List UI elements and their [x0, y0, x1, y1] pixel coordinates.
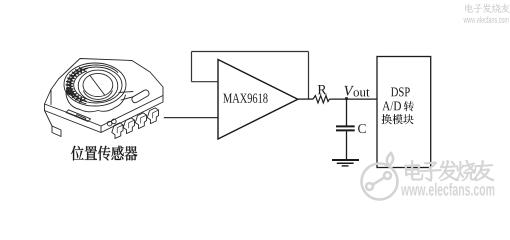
sensor eyelet holes — [107, 121, 112, 126]
capacitor label C — [358, 124, 366, 133]
resistor label R — [318, 85, 327, 94]
sensor rotor disc lower lip — [84, 91, 113, 100]
sensor rotor opening — [78, 70, 118, 101]
DSP A/D module box — [377, 57, 431, 168]
feedback wire left vertical — [191, 52, 193, 82]
wire resistor to node — [330, 98, 347, 100]
sensor rotor skirt scallop — [66, 94, 126, 112]
wire node to DSP box — [347, 98, 378, 100]
DSP box text line 2: 转 — [404, 101, 414, 111]
sensor pin 3 — [135, 113, 146, 129]
capacitor C bottom plate — [336, 129, 355, 131]
watermark top right url — [464, 16, 509, 23]
sensor label 位置传感器 — [71, 146, 137, 161]
sensor contact wedge — [66, 88, 75, 97]
feedback wire top — [192, 51, 309, 53]
ground symbol — [332, 160, 359, 166]
sensor base plate outline — [45, 59, 164, 127]
wire op-amp output to resistor — [298, 98, 313, 100]
position sensor body — [45, 59, 164, 139]
sensor hub outer rim — [64, 63, 126, 106]
resistor R zigzag — [313, 96, 330, 103]
node Vout junction dot — [345, 97, 348, 100]
capacitor C top plate — [336, 125, 355, 127]
DSP box text line 1: DSP — [391, 87, 410, 96]
sensor skirt slot tab — [76, 115, 86, 120]
sensor pin 2 — [123, 118, 134, 134]
DSP box text line 2: A/D — [382, 102, 401, 111]
wire capacitor to ground — [346, 131, 348, 159]
sensor contact spring arcs — [67, 66, 89, 104]
sensor skirt window slot — [66, 110, 91, 122]
watermark top right: 电子发烧友 — [465, 4, 510, 13]
DSP box text line 3: 换模块 — [382, 114, 414, 124]
watermark bottom right logo — [362, 153, 398, 200]
sensor arm link lines — [119, 92, 133, 101]
watermark bottom right script 电子发烧友 — [405, 160, 495, 181]
sensor corner foot tab — [52, 126, 61, 137]
sensor plate side skirt — [45, 90, 164, 133]
sensor rotor arm slot — [132, 90, 149, 103]
sensor hub inner rim — [70, 67, 122, 103]
sensor pin 1 — [112, 123, 123, 139]
sensor rotor disc — [83, 73, 113, 96]
wire node down to capacitor — [346, 99, 348, 126]
sensor pin 4 — [147, 108, 158, 124]
wire sensor to op-amp input — [164, 117, 218, 119]
sensor knurl sawtooth band — [66, 68, 85, 103]
sensor hub back wall top arc — [75, 65, 118, 73]
watermark bottom right url www.elecfans.com — [401, 183, 494, 196]
feedback wire into inverting input — [192, 81, 219, 83]
sensor rotor D-slot chord — [90, 75, 105, 95]
op-amp U1 MAX9618 triangle — [218, 60, 298, 140]
node label Vout — [344, 86, 354, 96]
op-amp label MAX9618 — [223, 94, 267, 103]
feedback wire right vertical to output node — [308, 52, 310, 100]
